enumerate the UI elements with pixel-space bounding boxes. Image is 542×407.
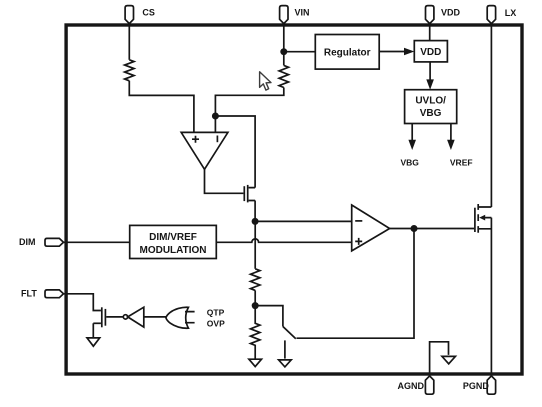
node J2 [252, 218, 259, 225]
wire box to comparator plus input with hop [216, 239, 351, 242]
svg-text:VREF: VREF [450, 158, 473, 168]
wire R1 bottom to op-amp plus input [129, 81, 194, 133]
switch SW1 [255, 306, 296, 359]
UVLO/VBG block [405, 90, 457, 124]
OR gate U4 [166, 307, 189, 328]
ground AGND symbol [442, 356, 455, 363]
wire Regulator to VDD block [379, 48, 414, 56]
pin VIN label [295, 7, 310, 17]
svg-text:Regulator: Regulator [324, 47, 371, 58]
node J1 feedback [212, 113, 219, 120]
wire R2 bottom to op-amp minus input [215, 88, 283, 133]
node VIN junction [280, 48, 287, 55]
resistor R4 (divider bottom) [251, 306, 260, 359]
svg-text:OVP: OVP [207, 318, 225, 328]
resistor R1 (CS sense) [125, 60, 134, 81]
wire J3 down to switch [297, 229, 415, 339]
pin LX [487, 6, 495, 24]
arrow UVLO to VREF [447, 124, 455, 151]
wire VDD pin to VDD block [429, 24, 431, 41]
wire J1 to Q1 drain [215, 116, 255, 188]
wire U2 output to node J3 [390, 228, 414, 230]
pin VDD label [441, 7, 461, 17]
svg-text:VDD: VDD [441, 7, 461, 17]
svg-text:PGND: PGND [463, 381, 490, 391]
svg-text:AGND: AGND [398, 381, 425, 391]
pin AGND label [398, 381, 425, 391]
wire M2 gate to inverter [106, 316, 123, 318]
wire VIN node to Regulator [284, 51, 316, 53]
OR gate input stubs [185, 312, 195, 323]
wire FLT pin to M2 drain [64, 294, 101, 311]
chip outline box [66, 25, 522, 374]
mouse cursor [260, 72, 271, 90]
wire CS pin to resistor [128, 24, 130, 60]
comparator U2 [352, 205, 390, 251]
wire LX pin to M1 drain [490, 24, 492, 207]
wire J2 to comparator minus input [255, 220, 352, 222]
ground under switch [279, 360, 292, 367]
pin AGND [425, 376, 433, 394]
svg-text:DIM/VREF: DIM/VREF [149, 232, 197, 243]
wire M2 source to ground [92, 323, 94, 337]
wire inverter to OR gate [144, 316, 167, 318]
node J3 [411, 225, 418, 232]
pin DIM label [19, 237, 36, 247]
wire J2 down to divider [254, 221, 256, 268]
pin PGND [487, 376, 495, 394]
wire DIM pin to box [64, 241, 130, 243]
node QTP label [207, 307, 225, 317]
svg-text:UVLO/: UVLO/ [415, 95, 446, 106]
node J4 [252, 302, 259, 309]
pin CS [125, 6, 133, 24]
svg-text:VBG: VBG [401, 158, 420, 168]
transistor Q1 [244, 185, 255, 203]
wire J3 to M1 gate [414, 228, 474, 230]
inverter U3 [123, 307, 144, 327]
pin LX label [505, 8, 517, 18]
svg-text:MODULATION: MODULATION [139, 245, 206, 256]
svg-text:VDD: VDD [420, 47, 441, 58]
svg-text:CS: CS [142, 7, 155, 17]
node VBG label [401, 158, 420, 168]
svg-text:DIM: DIM [19, 237, 36, 247]
svg-text:QTP: QTP [207, 307, 225, 317]
pin VDD [426, 6, 434, 24]
arrow UVLO to VBG [408, 124, 416, 151]
transistor M1 power FET [475, 204, 492, 233]
pin FLT [45, 290, 64, 298]
op-amp U1 [181, 132, 228, 169]
pin VIN [280, 6, 288, 24]
svg-text:LX: LX [505, 8, 517, 18]
wire Q1 source to node J2 [254, 201, 256, 222]
svg-text:VIN: VIN [295, 7, 310, 17]
VDD block [414, 41, 447, 62]
DIM/VREF MODULATION box [130, 225, 217, 258]
wire U1 output to Q1 gate [205, 169, 244, 193]
wire VDD block to UVLO [426, 62, 434, 90]
pin PGND label [463, 381, 490, 391]
transistor M2 [93, 307, 105, 327]
pin FLT label [21, 288, 37, 298]
pin DIM [45, 238, 64, 246]
regulator box [315, 35, 379, 70]
node OVP label [207, 318, 225, 328]
svg-text:FLT: FLT [21, 288, 37, 298]
ground under M2 [87, 338, 100, 346]
wire VIN pin down [283, 24, 285, 66]
node VREF label [450, 158, 473, 168]
svg-text:VBG: VBG [420, 108, 442, 119]
wire M1 source to PGND [490, 218, 492, 376]
resistor R2 (VIN) [279, 65, 288, 87]
resistor R3 (divider top) [251, 269, 260, 291]
wire AGND to internal ground [430, 342, 449, 376]
pin CS label [142, 7, 155, 17]
wire R3 to node J4 [254, 290, 256, 305]
ground under R4 [249, 359, 262, 366]
